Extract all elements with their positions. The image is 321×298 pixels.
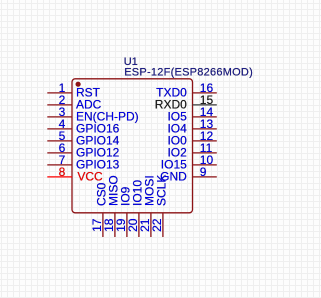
svg-text:ESP-12F(ESP8266MOD): ESP-12F(ESP8266MOD) <box>124 67 253 79</box>
svg-text:9: 9 <box>200 165 207 179</box>
svg-text:VCC: VCC <box>77 170 103 184</box>
svg-text:8: 8 <box>59 165 66 179</box>
svg-text:SCLK: SCLK <box>155 175 169 206</box>
svg-text:22: 22 <box>150 218 164 232</box>
